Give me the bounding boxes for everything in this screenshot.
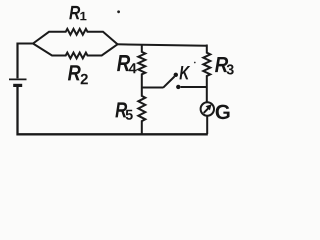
wire bridge right xyxy=(181,86,207,88)
label R4 "R" xyxy=(117,55,130,71)
label R1 subscript 1 xyxy=(80,12,86,20)
galvanometer needle xyxy=(203,104,212,113)
label R5 subscript 5 xyxy=(126,110,133,120)
galvanometer G circle xyxy=(201,102,214,115)
switch K lever xyxy=(163,77,175,88)
stray speck near K xyxy=(194,62,196,64)
wire bridge left xyxy=(142,87,163,89)
resistor R4 xyxy=(138,45,145,88)
label R2 "R" xyxy=(68,65,81,80)
resistor R1 xyxy=(33,29,118,44)
label R2 subscript 2 xyxy=(81,74,88,84)
label G (galvanometer) xyxy=(216,105,230,120)
label R5 "R" xyxy=(115,102,127,117)
stray dot xyxy=(117,10,120,13)
wire left vertical upper xyxy=(16,43,18,79)
wire left vertical lower + bottom wire xyxy=(18,87,208,135)
resistor R5 xyxy=(138,88,145,135)
label K (switch) xyxy=(179,66,190,79)
label R1 "R" xyxy=(69,6,80,19)
label R3 subscript 3 xyxy=(227,64,234,74)
resistor R2 xyxy=(33,44,118,59)
label R3 "R" xyxy=(215,57,228,72)
battery B1 xyxy=(9,78,27,80)
switch K contact dot (fixed) xyxy=(176,85,180,89)
wire battery top to fork xyxy=(18,43,34,45)
label R4 subscript 4 xyxy=(129,63,137,73)
resistor R3 xyxy=(203,45,210,102)
wire top node xyxy=(117,44,207,45)
switch K contact dot (lever tip) xyxy=(174,73,178,77)
wire G to bottom xyxy=(206,116,208,134)
